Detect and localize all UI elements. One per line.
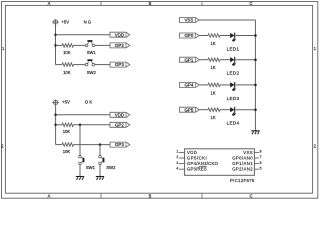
wire GP0 lead: [199, 35, 208, 37]
frame label B bottom: [149, 193, 152, 198]
value 1K (LED3 row): [211, 90, 216, 95]
designator LED3: [227, 96, 240, 101]
wire NG row1 to VDD label: [56, 34, 111, 36]
designator LED2: [227, 71, 240, 76]
IC pin 1 stub: [179, 151, 185, 153]
global label GP5: [180, 107, 200, 112]
svg-text:C: C: [249, 193, 252, 198]
designator LED4: [227, 121, 240, 126]
wire GP1 lead: [199, 59, 208, 61]
ground below SW1: [76, 177, 84, 180]
svg-text:C: C: [249, 1, 252, 6]
wire LED1 cathode to bus: [236, 35, 256, 37]
IC pin number 8: [260, 150, 262, 154]
junction OK row2 switch node: [79, 124, 82, 127]
frame label 1 left: [2, 46, 5, 51]
wire OK row3 lead: [56, 144, 62, 146]
IC pin label GP5/CKI: [187, 156, 207, 161]
IC pin 3 stub: [179, 163, 185, 165]
IC pin label GP0/AN0: [232, 156, 253, 161]
frame label B top: [149, 1, 152, 6]
wire NG row3 lead: [56, 64, 63, 66]
IC pin label GP4/AN3/CKO: [187, 161, 219, 166]
svg-text:2: 2: [176, 155, 178, 159]
resistor 10K (OK row2): [62, 123, 74, 127]
ground below SW2: [96, 177, 104, 180]
svg-text:10K: 10K: [63, 149, 71, 154]
switch SW1 (OK): [79, 155, 85, 164]
switch SW1 (NG): [85, 40, 94, 47]
wire SW2 drop lower: [99, 164, 101, 176]
frame tick bottom x=101: [100, 193, 102, 198]
svg-text:10K: 10K: [63, 129, 71, 134]
svg-text:GP1/AN1: GP1/AN1: [232, 161, 253, 166]
wire cathode bus: [254, 20, 256, 131]
wire OK row2 to label: [74, 124, 111, 126]
svg-text:VDD: VDD: [115, 112, 124, 117]
svg-text:1K: 1K: [211, 115, 216, 120]
wire NG row3 mid: [74, 64, 86, 66]
LED LED2: [230, 57, 235, 67]
value 10K (NG row3): [63, 70, 71, 75]
junction NG row2: [54, 44, 57, 47]
value 10K (NG row2): [63, 50, 71, 55]
switch SW2 (NG): [85, 59, 94, 66]
svg-text:N G: N G: [84, 20, 92, 25]
svg-text:GP1: GP1: [185, 57, 194, 62]
IC name PIC12F675: [230, 178, 255, 183]
value 1K (LED2 row): [211, 65, 216, 70]
svg-text:GP4: GP4: [185, 83, 194, 88]
svg-text:LED4: LED4: [227, 121, 240, 126]
svg-text:GP3: GP3: [115, 142, 124, 147]
svg-text:1: 1: [2, 46, 5, 51]
junction bus LED4: [254, 108, 257, 111]
resistor 1K (LED4 row): [208, 108, 220, 112]
designator SW1 (OK): [86, 165, 96, 170]
svg-text:A: A: [48, 193, 51, 198]
LED LED1: [230, 33, 235, 43]
svg-text:GP0: GP0: [185, 33, 194, 38]
svg-text:B: B: [149, 1, 152, 6]
wire SW1 drop upper: [79, 125, 81, 156]
svg-text:SW2: SW2: [106, 165, 116, 170]
wire LED2 cathode to bus: [236, 59, 256, 61]
svg-text:1: 1: [314, 46, 317, 51]
IC pin number 6: [260, 161, 262, 165]
svg-text:5: 5: [260, 166, 262, 170]
junction OK row2 left: [54, 124, 57, 127]
IC pin number 4: [176, 166, 178, 170]
svg-text:GP5: GP5: [185, 107, 194, 112]
IC pin label GP1/AN1: [232, 161, 253, 166]
value 10K (OK row2): [63, 129, 71, 134]
svg-text:LED1: LED1: [227, 47, 240, 52]
frame tick top x=202: [201, 2, 203, 6]
resistor 10K (NG row3): [62, 63, 74, 67]
ground cathode bus: [251, 131, 259, 134]
frame inner border: [5, 5, 312, 193]
svg-text:B: B: [149, 193, 152, 198]
junction bus LED3: [254, 84, 257, 87]
global label GP3 (NG): [110, 62, 130, 67]
svg-text:2: 2: [314, 144, 317, 149]
global label GP0: [180, 33, 200, 38]
power +5V symbol (OK block): [52, 100, 59, 105]
wire OK row3 to label: [74, 144, 111, 146]
wire NG row2 mid: [74, 44, 86, 46]
IC pin 5 stub: [254, 168, 259, 170]
designator SW2 (OK): [106, 165, 116, 170]
value 1K (LED1 row): [211, 41, 216, 46]
wire OK row1 to VDD label: [56, 114, 110, 116]
resistor 1K (LED3 row): [208, 83, 220, 87]
svg-text:SW1: SW1: [87, 50, 97, 55]
IC pin label VDD: [187, 150, 197, 155]
resistor 1K (LED2 row): [208, 58, 220, 62]
wire NG row2 lead: [56, 44, 63, 46]
global label VDD (NG): [110, 32, 130, 37]
junction NG VDD row: [54, 33, 57, 36]
svg-text:+5V: +5V: [61, 20, 69, 25]
junction bus LED2: [254, 58, 257, 61]
power +5V symbol (NG block): [52, 19, 59, 24]
svg-text:VSS: VSS: [185, 18, 194, 23]
frame label 1 right: [314, 46, 317, 51]
junction bus LED1: [254, 34, 257, 37]
IC pin 6 stub: [254, 163, 259, 165]
wire +5V stem down (OK): [55, 105, 57, 145]
svg-text:3: 3: [176, 161, 178, 165]
wire SW2 drop upper: [99, 145, 101, 156]
wire NG row2 to label: [95, 44, 110, 46]
IC pin 7 stub: [254, 157, 259, 159]
svg-text:VDD: VDD: [115, 32, 124, 37]
svg-text:SW1: SW1: [86, 165, 96, 170]
frame label 2 left: [1, 144, 4, 149]
IC pin number 2: [176, 155, 178, 159]
global label GP3 (OK): [110, 142, 130, 147]
IC pin 8 stub: [254, 151, 259, 153]
IC pin number 3: [176, 161, 178, 165]
wire LED4 anode lead: [220, 109, 230, 111]
svg-text:SW2: SW2: [87, 70, 97, 75]
svg-text:GP4/AN3/CKO: GP4/AN3/CKO: [187, 161, 219, 166]
wire NG row3 to label: [95, 64, 110, 66]
IC pin number 7: [260, 155, 262, 159]
svg-text:GP0/AN0: GP0/AN0: [232, 156, 253, 161]
IC pin label GP3/RES overline: [199, 166, 207, 168]
svg-text:1: 1: [176, 150, 178, 154]
resistor 10K (NG row2): [62, 44, 74, 48]
switch SW2 (OK): [99, 155, 105, 164]
IC pin 4 stub: [179, 168, 185, 170]
svg-text:2: 2: [1, 144, 4, 149]
wire LED3 cathode to bus: [236, 84, 256, 86]
svg-text:8: 8: [260, 150, 262, 154]
wire LED4 cathode to bus: [236, 109, 256, 111]
svg-text:VSS: VSS: [243, 150, 252, 155]
wire GP4 lead: [199, 84, 208, 86]
svg-text:GP5/CKI: GP5/CKI: [187, 156, 207, 161]
svg-text:A: A: [48, 1, 51, 6]
wire +5V stem down (NG): [55, 24, 57, 65]
svg-text:GP2: GP2: [115, 122, 124, 127]
LED LED3: [230, 82, 235, 92]
global label VSS (LED block): [180, 18, 200, 23]
svg-text:4: 4: [176, 166, 178, 170]
resistor 10K (OK row3): [62, 143, 74, 147]
IC pin number 1: [176, 150, 178, 154]
wire LED3 anode lead: [220, 84, 230, 86]
wire GP5 lead: [199, 109, 208, 111]
label +5V (OK): [62, 99, 70, 104]
svg-text:7: 7: [260, 155, 262, 159]
svg-text:GP3: GP3: [115, 62, 124, 67]
value 1K (LED4 row): [211, 115, 216, 120]
wire SW1 drop lower: [79, 164, 81, 176]
global label GP4: [180, 82, 200, 87]
designator SW2 (NG): [87, 70, 97, 75]
global label GP2 (OK): [110, 122, 130, 127]
frame tick top x=101: [100, 2, 102, 6]
svg-text:GP3/RES: GP3/RES: [187, 167, 207, 172]
designator LED1: [227, 47, 240, 52]
designator SW1 (NG): [87, 50, 97, 55]
LED LED4: [230, 107, 235, 117]
label +5V (NG): [61, 20, 69, 25]
svg-text:VDD: VDD: [187, 150, 197, 155]
svg-text:10K: 10K: [63, 70, 71, 75]
global label GP2 (NG): [110, 43, 130, 48]
svg-text:LED3: LED3: [227, 96, 240, 101]
resistor 1K (LED1 row): [208, 34, 220, 38]
frame label 2 right: [314, 144, 317, 149]
wire LED2 anode lead: [220, 59, 230, 61]
junction OK row3 switch node: [99, 143, 102, 146]
IC body PIC12F675: [185, 149, 255, 176]
svg-text:1K: 1K: [211, 65, 216, 70]
junction OK VDD row: [54, 114, 57, 117]
svg-text:1K: 1K: [211, 41, 216, 46]
wire LED1 anode lead: [220, 35, 230, 37]
IC pin label VSS: [243, 150, 252, 155]
frame tick bottom x=202: [201, 193, 203, 198]
frame label C bottom: [249, 193, 252, 198]
svg-text:+5V: +5V: [62, 99, 70, 104]
svg-text:10K: 10K: [63, 50, 71, 55]
IC pin label GP3/RES: [187, 167, 207, 172]
frame label A bottom: [48, 193, 51, 198]
wire OK row2 lead: [56, 124, 62, 126]
svg-text:PIC12F675: PIC12F675: [230, 178, 255, 183]
IC pin number 5: [260, 166, 262, 170]
frame label A top: [48, 1, 51, 6]
value 10K (OK row3): [63, 149, 71, 154]
svg-text:GP2/AN2: GP2/AN2: [232, 167, 253, 172]
wire VSS to bus: [199, 19, 255, 21]
label O K: [85, 99, 93, 104]
svg-text:1K: 1K: [211, 90, 216, 95]
frame label C top: [249, 1, 252, 6]
global label GP1: [180, 57, 200, 62]
IC pin 2 stub: [179, 157, 185, 159]
svg-text:LED2: LED2: [227, 71, 240, 76]
svg-text:6: 6: [260, 161, 262, 165]
label N G: [84, 20, 92, 25]
IC pin label GP2/AN2: [232, 167, 253, 172]
global label VDD (OK): [110, 112, 130, 117]
svg-text:O K: O K: [85, 99, 93, 104]
svg-text:GP2: GP2: [115, 43, 124, 48]
